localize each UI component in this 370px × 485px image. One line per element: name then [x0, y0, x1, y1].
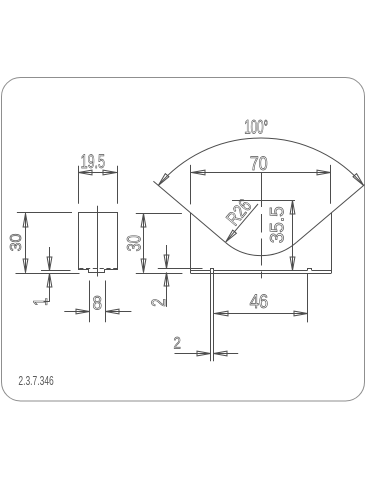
dim 1 arrow up [47, 274, 52, 288]
dim 1 arrow down [47, 257, 52, 271]
right view slot left [211, 269, 214, 271]
dim 30 right-view bottom extension [136, 273, 183, 275]
right view centerline [261, 173, 263, 207]
dim 1 lower shaft [49, 273, 51, 302]
right view bottom edge seg3 [312, 270, 332, 272]
dim 70 dimension line [191, 172, 331, 174]
dim 8 tail right [105, 311, 131, 313]
dim 30 left dimension line [25, 213, 27, 273]
svg-text:100°: 100° [244, 118, 268, 139]
left view outline [79, 213, 118, 273]
dim 19.5 extension line right [117, 166, 119, 204]
dim 8 extension left [89, 281, 91, 323]
dim 100deg arc [158, 138, 363, 185]
dim 30 right-view arrow up [141, 214, 146, 228]
dim 19.5 arrow right [103, 170, 117, 175]
left view bottom edge extension [41, 270, 71, 272]
dim 30 left top extension [17, 212, 72, 214]
svg-text:2: 2 [174, 334, 181, 353]
dim R26 arrow [226, 230, 237, 242]
dim 30 right-view arrow down [141, 259, 146, 273]
dim 30 right-view top extension [136, 213, 182, 215]
drawing sheet border [2, 78, 365, 402]
dim 19.5 arrow left [79, 170, 93, 175]
dim 8 arrow right-pointing [76, 309, 90, 314]
dim 30 left arrow up [23, 214, 28, 228]
svg-text:19.5: 19.5 [81, 152, 105, 173]
dim 35.5 arrow down [290, 257, 295, 271]
svg-text:30: 30 [8, 234, 25, 252]
svg-text:8: 8 [93, 292, 103, 313]
dim 19.5 extension line left [78, 166, 80, 204]
V-groove R26 arc [225, 242, 296, 255]
dim 30 left bottom extension [16, 273, 80, 275]
dim 30 left arrow down [23, 259, 28, 273]
dim 70 extension left [190, 165, 192, 205]
dim 2 lower shaft [166, 273, 168, 307]
left view centerline [97, 206, 99, 277]
right view slot right [308, 269, 312, 271]
dim 2 arrow down [164, 255, 169, 269]
dim 46 slot extension lines [210, 271, 212, 362]
svg-text:35.5: 35.5 [268, 206, 289, 243]
svg-text:1: 1 [30, 298, 51, 306]
dim 2 bottom leader [175, 353, 211, 355]
right view tab bottom line [190, 273, 331, 275]
dim 2 bottom tail right [214, 353, 238, 355]
dim 46 arrow left [215, 311, 229, 316]
dim 70 extension right [330, 165, 332, 204]
right view bottom edge seg2 [214, 270, 308, 272]
right view left edge [190, 213, 192, 273]
dim 46 extension right [307, 273, 309, 322]
right view bottom edge seg1 [190, 270, 210, 272]
left view hidden slot line [79, 268, 117, 270]
dim 8 tail left [64, 311, 89, 313]
dim 2 bottom arrow left-pointing [214, 351, 228, 356]
V-groove right slant [297, 185, 365, 243]
svg-text:46: 46 [250, 291, 269, 312]
dim 70 arrow right [317, 170, 331, 175]
svg-text:2: 2 [148, 298, 169, 306]
dim 8 arrow left-pointing [106, 309, 120, 314]
dim 35.5 arrow up [290, 201, 295, 215]
dim 35.5 dimension line [292, 201, 294, 271]
svg-text:2.3.7.346: 2.3.7.346 [18, 375, 53, 389]
dim 100deg arrow right [353, 174, 364, 186]
dim 2 bottom arrow right-pointing [197, 351, 211, 356]
dim 2 arrow up [164, 273, 169, 287]
dim 100deg arrow left [158, 174, 169, 186]
right view right edge [331, 213, 333, 273]
dim 35.5 top extension [232, 200, 295, 202]
dim R26 leader [226, 204, 258, 242]
svg-text:30: 30 [124, 235, 145, 251]
dim 8 extension right [105, 281, 107, 323]
dim 2 upper shaft [166, 245, 168, 268]
dim 46 dimension line [214, 313, 308, 315]
dim 46 arrow right [294, 311, 308, 316]
svg-text:70: 70 [250, 152, 268, 174]
dim 2 slot-top extension [158, 268, 203, 270]
V-groove left slant [153, 181, 225, 242]
dim 70 arrow left [192, 170, 206, 175]
dim 19.5 dimension line [78, 172, 117, 174]
dim 1 upper shaft [49, 247, 51, 270]
dim 30 right-view dimension line [143, 213, 145, 273]
dim 1 leader [44, 301, 50, 303]
